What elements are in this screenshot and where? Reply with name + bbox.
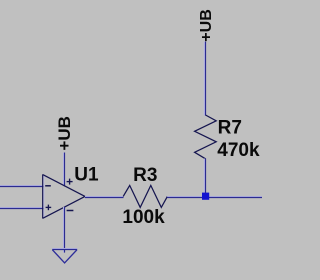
value label 470k <box>217 140 260 161</box>
wire: +UB down to R7 top pin <box>204 42 205 116</box>
label R7 <box>218 117 242 138</box>
U1 inverting input marker - <box>45 185 51 187</box>
label U1 <box>74 164 99 185</box>
wire: R7 bottom pin to junction <box>204 159 205 197</box>
svg-text:100k: 100k <box>122 207 165 228</box>
label R3 <box>133 165 157 186</box>
wire: U1 output to R3 left pin <box>85 197 124 198</box>
power +UB (right, net label) <box>198 9 215 41</box>
svg-text:R7: R7 <box>218 117 242 138</box>
U1 V+ pin marker + <box>67 179 73 185</box>
wire: U1 V- pin down to ground <box>64 207 65 253</box>
svg-text:R3: R3 <box>133 165 157 186</box>
svg-text:U1: U1 <box>74 164 99 185</box>
ground <box>52 249 77 263</box>
power +UB (left, net label) <box>55 116 74 150</box>
resistor R7 <box>195 115 217 159</box>
U1 V- pin marker - <box>67 210 74 212</box>
wire: non-inverting input (from left edge) <box>0 208 44 209</box>
svg-text:470k: 470k <box>217 140 260 161</box>
op-amp U1 (triangle body) <box>43 174 85 218</box>
svg-text:+UB: +UB <box>55 116 74 150</box>
svg-text:+UB: +UB <box>198 9 215 41</box>
wire: +UB down to U1 V+ pin <box>64 153 65 187</box>
junction node (R3 / R7 / output) <box>202 193 209 200</box>
wire: R3 right pin to junction and right edge <box>167 197 262 198</box>
value label 100k <box>122 207 165 228</box>
wire: inverting input (from left edge) <box>0 186 44 187</box>
resistor R3 <box>123 185 167 207</box>
U1 non-inverting input marker + <box>46 205 52 211</box>
